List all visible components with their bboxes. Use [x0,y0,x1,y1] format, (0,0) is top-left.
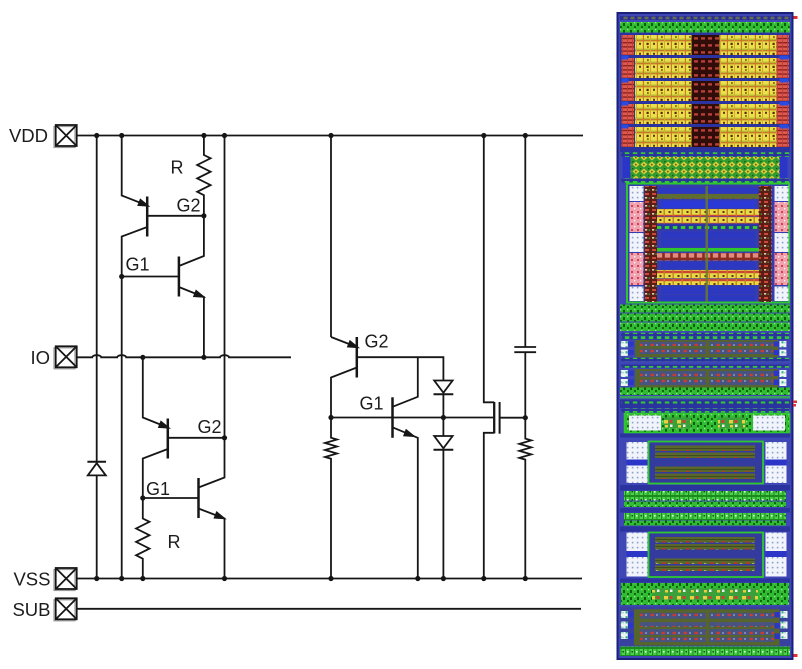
transistor Q4 (NPN, lower SCR) [199,438,225,579]
node trigger rail left [328,415,333,420]
wire SUB rail [77,608,581,610]
svg-text:G2: G2 [177,196,201,216]
node G2 (top SCR) [201,213,206,218]
wire base Q3 to node G2b [168,437,225,439]
wire VDD rail [77,135,583,137]
node gate RC [523,415,528,420]
transistor Q1 (PNP, top SCR) [122,136,149,277]
resistor R (lower SCR) [136,498,149,579]
junction dots VDD rail [94,133,528,138]
diode D1 [87,462,106,476]
svg-text:VSS: VSS [13,569,50,590]
svg-text:G1: G1 [146,479,170,499]
svg-text:G1: G1 [360,394,384,414]
junction dots VSS rail [94,576,528,581]
pin IO [54,346,77,369]
node G2 (lower SCR) [222,435,227,440]
node G1 (lower SCR) [140,495,145,500]
wire VDD to MOSFET drain [484,136,494,403]
MOSFET M1 [484,402,526,579]
svg-text:SUB: SUB [12,599,50,620]
capacitor C1 [514,347,536,418]
wire G1b to Q4 base [143,497,199,499]
svg-text:G2: G2 [365,332,389,352]
pin VDD [54,125,77,148]
wire base Q1 to node G2 [147,215,204,217]
node Q2 emitter at IO [201,355,206,360]
node G1 (top SCR) [119,274,124,279]
wire G1 down to VSS [121,277,123,579]
wire trigger rail [331,417,494,419]
diode D3 [434,418,454,579]
IC layout image [617,12,798,660]
svg-text:IO: IO [30,347,50,368]
transistor Q3 (PNP, lower SCR) [143,357,169,498]
svg-text:R: R [168,532,181,552]
wire VDD to capacitor [524,136,526,348]
svg-text:G2: G2 [198,417,222,437]
wire VDD to Q5 emitter [330,136,332,338]
node IO to Q3 emitter [140,355,145,360]
wire Q6 collector drop [393,357,418,407]
svg-text:R: R [171,158,184,178]
resistor R (top SCR) [197,136,210,216]
resistor R4 [519,418,531,579]
wire diode to VSS [96,475,98,578]
svg-text:VDD: VDD [9,125,48,146]
wire VDD to lower G2 branch [224,136,226,438]
diode D2 [434,381,454,418]
transistor Q5 (PNP, middle G2) [331,337,358,418]
svg-text:G1: G1 [126,255,150,275]
node diode junction [441,415,446,420]
transistor Q6 (NPN, middle G1) [393,397,418,578]
pin VSS [54,568,77,591]
resistor R3 [325,418,337,579]
wire G1 to Q2 base [122,276,179,278]
wire IO rail with hops [77,355,291,357]
wire Q5 base lead [357,357,444,380]
pin SUB [54,598,77,621]
wire VSS rail [77,578,582,580]
transistor Q2 (NPN, top SCR) [179,216,204,357]
wire VDD-to-diode branch [96,136,98,462]
